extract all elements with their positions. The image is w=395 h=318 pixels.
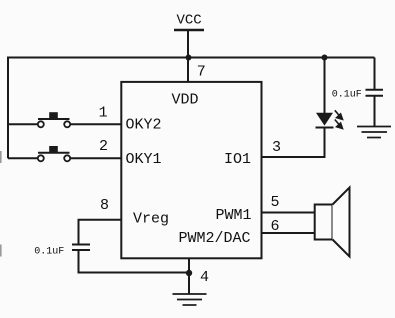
svg-text:6: 6	[271, 218, 280, 235]
svg-text:VDD: VDD	[172, 92, 199, 109]
svg-text:8: 8	[100, 197, 109, 214]
svg-text:3: 3	[272, 139, 281, 156]
svg-text:7: 7	[197, 64, 206, 81]
svg-text:PWM2/DAC: PWM2/DAC	[179, 230, 251, 247]
svg-text:5: 5	[271, 194, 280, 211]
svg-text:IO1: IO1	[224, 151, 251, 168]
svg-text:1: 1	[99, 105, 108, 122]
svg-text:OKY2: OKY2	[126, 117, 162, 134]
svg-text:OKY1: OKY1	[126, 151, 162, 168]
svg-text:Vreg: Vreg	[133, 211, 169, 228]
svg-text:VCC: VCC	[177, 13, 202, 29]
svg-text:4: 4	[200, 269, 209, 286]
svg-text:2: 2	[99, 138, 108, 155]
svg-text:0.1uF: 0.1uF	[34, 247, 64, 258]
svg-text:0.1uF: 0.1uF	[332, 90, 362, 101]
svg-text:PWM1: PWM1	[216, 207, 252, 224]
